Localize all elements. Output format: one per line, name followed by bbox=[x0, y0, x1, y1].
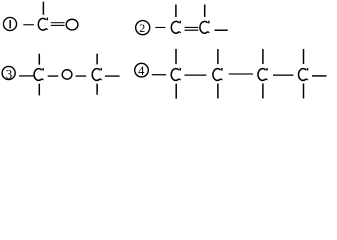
bond dash s4 b bbox=[185, 75, 207, 76]
double bond s1 bottom bbox=[51, 25, 65, 26]
bond down s4-C1 bbox=[175, 84, 177, 99]
label circle 3 bbox=[2, 66, 15, 79]
atom C s4-3 bbox=[258, 68, 268, 81]
bond dash s4 c bbox=[229, 73, 253, 74]
bond up s1-C bbox=[42, 2, 44, 15]
double bond s2 top bbox=[185, 27, 199, 28]
double bond s2 bottom bbox=[185, 30, 199, 31]
svg-text:4: 4 bbox=[138, 64, 145, 78]
bond dash s1 bbox=[23, 24, 34, 25]
bond up s4-C3 bbox=[262, 49, 264, 64]
svg-text:3: 3 bbox=[6, 66, 13, 81]
bond dash s3 b bbox=[48, 75, 59, 76]
digit 1 bbox=[9, 20, 11, 28]
atom C s3-2 bbox=[92, 68, 102, 81]
label circle 4 bbox=[135, 63, 149, 77]
bond up s2-C2 bbox=[204, 5, 206, 17]
bond down s4-C4 bbox=[303, 84, 305, 99]
svg-text:2: 2 bbox=[139, 21, 145, 35]
bond dash s4 d bbox=[273, 75, 293, 76]
label circle 1 bbox=[3, 17, 16, 30]
atom C s4-4 bbox=[298, 68, 308, 81]
atom O s3 bbox=[62, 70, 72, 79]
bond dash s4 a bbox=[152, 74, 166, 75]
bond dash s4 e bbox=[312, 75, 327, 76]
bond dash s2 left bbox=[155, 27, 165, 28]
bond up s2-C1 bbox=[175, 5, 177, 18]
bond up s4-C2 bbox=[217, 49, 219, 64]
bond up s4-C1 bbox=[175, 49, 177, 64]
bond up s3-C2 bbox=[96, 54, 98, 65]
bond down s3-C1 bbox=[38, 84, 40, 96]
atom C s1 bbox=[38, 18, 48, 31]
bond dash s3 c bbox=[76, 75, 87, 76]
atom C s2-1 bbox=[171, 21, 181, 34]
atom C s2-2 bbox=[200, 21, 210, 34]
bond up s3-C1 bbox=[38, 54, 40, 65]
bond dash s2 right bbox=[215, 30, 228, 31]
bond up s4-C4 bbox=[303, 49, 305, 64]
label circle 2 bbox=[136, 21, 150, 35]
atom C s3-1 bbox=[34, 68, 44, 81]
bond dash s3 a bbox=[19, 75, 34, 76]
bond down s4-C3 bbox=[262, 84, 264, 99]
bond dash s3 d bbox=[105, 75, 120, 76]
bond down s3-C2 bbox=[96, 84, 98, 95]
bond down s4-C2 bbox=[217, 84, 219, 99]
atom O s1 bbox=[66, 19, 78, 30]
atom C s4-2 bbox=[213, 68, 223, 81]
double bond s1 top bbox=[51, 22, 65, 23]
atom C s4-1 bbox=[171, 68, 181, 81]
